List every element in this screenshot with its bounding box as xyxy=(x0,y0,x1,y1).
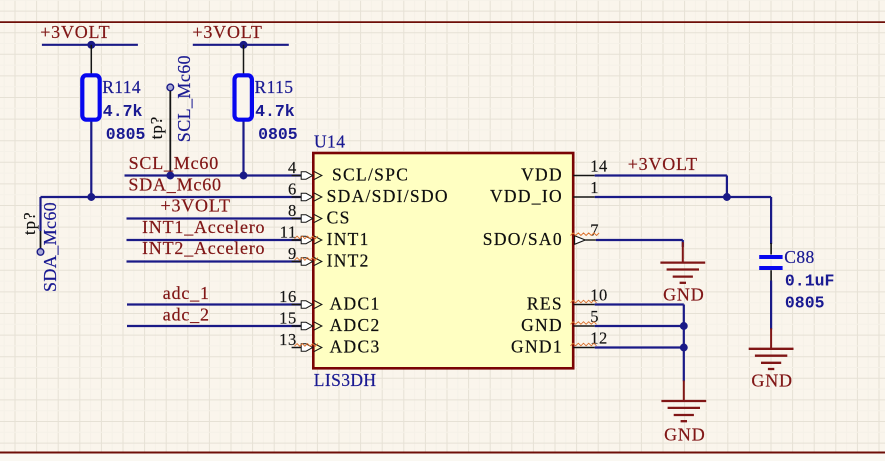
pin 8 (left) xyxy=(288,201,322,223)
pin name VDD xyxy=(521,165,563,185)
pin 16 (left) xyxy=(279,287,322,309)
svg-text:adc_2: adc_2 xyxy=(163,304,210,324)
wire net adc_2 xyxy=(127,325,301,327)
svg-text:U14: U14 xyxy=(314,131,345,151)
svg-text:adc_1: adc_1 xyxy=(163,283,210,303)
wire R114 to SDA_Mc60 net xyxy=(90,120,92,198)
svg-text:C88: C88 xyxy=(784,247,814,267)
svg-text:4: 4 xyxy=(288,158,297,177)
wire R115 to SCL_Mc60 net xyxy=(242,120,244,176)
pin 11 (left) xyxy=(280,223,322,245)
pin 5 (right) xyxy=(571,307,600,326)
svg-text:0805: 0805 xyxy=(106,125,146,144)
pin 14 (VDD) xyxy=(573,156,608,175)
svg-text:4.7k: 4.7k xyxy=(103,102,143,121)
net label INT2_Accelero xyxy=(142,238,265,258)
test point tp? (SDA_Mc60) xyxy=(20,202,60,292)
junction GND net xyxy=(680,322,688,330)
pin 10 (right) xyxy=(571,285,608,304)
junction on +3VOLT bar (middle) xyxy=(240,41,248,49)
junction SCL_Mc60 / R115 xyxy=(240,172,248,180)
sheet border top xyxy=(0,21,885,23)
svg-text:SCL/SPC: SCL/SPC xyxy=(332,165,409,185)
pin name GND xyxy=(521,315,563,335)
svg-text:GND: GND xyxy=(664,425,705,445)
svg-text:0.1uF: 0.1uF xyxy=(785,272,835,291)
resistor R115 xyxy=(235,75,294,119)
junction SDA_Mc60 / R114 xyxy=(87,193,95,201)
svg-text:SDA_Mc60: SDA_Mc60 xyxy=(40,202,60,292)
net label adc_1 xyxy=(163,283,210,303)
junction GND net 2 xyxy=(680,344,688,352)
svg-text:13: 13 xyxy=(279,330,297,349)
net label +3VOLT (right) xyxy=(628,154,698,174)
svg-text:ADC1: ADC1 xyxy=(330,294,381,314)
wire net SDA_Mc60 xyxy=(41,197,302,231)
value 4.7k (R114) xyxy=(103,102,143,121)
svg-text:GND: GND xyxy=(751,371,792,391)
pin name ADC3 xyxy=(330,337,381,357)
svg-text:INT1_Accelero: INT1_Accelero xyxy=(142,217,265,237)
svg-text:+3VOLT: +3VOLT xyxy=(628,154,698,174)
ground GND (pin 7) xyxy=(660,242,705,304)
value 0805 (R115) xyxy=(258,125,298,144)
wire VDD to +3VOLT xyxy=(595,176,727,198)
wire net INT1_Accelero xyxy=(127,239,302,241)
svg-text:VDD: VDD xyxy=(521,165,563,185)
value 0805 (R114) xyxy=(106,125,146,144)
svg-text:+3VOLT: +3VOLT xyxy=(40,22,110,42)
svg-text:SCL_Mc60: SCL_Mc60 xyxy=(129,153,219,173)
svg-text:RES: RES xyxy=(527,294,563,314)
wire SDO/SA0 to GND xyxy=(596,240,683,247)
net label +3VOLT xyxy=(161,196,231,216)
svg-text:15: 15 xyxy=(279,309,297,328)
svg-text:4.7k: 4.7k xyxy=(255,102,295,121)
pin 15 (left) xyxy=(279,309,322,331)
svg-text:GND: GND xyxy=(663,284,704,304)
svg-text:R114: R114 xyxy=(102,77,141,97)
svg-text:8: 8 xyxy=(288,201,297,220)
svg-text:INT2_Accelero: INT2_Accelero xyxy=(142,238,265,258)
pin name GND1 xyxy=(511,337,563,357)
svg-text:0805: 0805 xyxy=(258,125,298,144)
svg-text:tp?: tp? xyxy=(147,116,166,140)
wire net SCL_Mc60 xyxy=(125,174,302,176)
wire RES/GND/GND1 to ground xyxy=(595,305,684,382)
pin 12 (right) xyxy=(571,328,608,347)
pin name CS xyxy=(327,208,351,228)
svg-text:INT2: INT2 xyxy=(327,251,370,271)
svg-text:tp?: tp? xyxy=(20,211,39,235)
pin name VDD_IO xyxy=(490,186,563,206)
ground GND (pins 5/12) xyxy=(661,381,706,445)
svg-text:6: 6 xyxy=(288,180,297,199)
pin 4 (left) xyxy=(288,158,322,180)
wire C88 to GND xyxy=(770,281,772,330)
svg-text:GND1: GND1 xyxy=(511,337,563,357)
capacitor C88 xyxy=(759,243,814,281)
svg-text:ADC3: ADC3 xyxy=(330,337,381,357)
pin 9 (left) xyxy=(288,244,322,266)
svg-text:11: 11 xyxy=(280,223,297,242)
svg-text:14: 14 xyxy=(590,156,608,175)
svg-text:LIS3DH: LIS3DH xyxy=(314,370,377,390)
pin name INT2 xyxy=(327,251,370,271)
svg-text:SCL_Mc60: SCL_Mc60 xyxy=(174,55,194,142)
wire net adc_1 xyxy=(127,303,301,305)
svg-text:CS: CS xyxy=(327,208,351,228)
pin name SDA/SDI/SDO xyxy=(327,186,449,206)
pin name RES xyxy=(527,294,563,314)
test point tp? (SCL_Mc60) xyxy=(147,55,194,176)
value 0805 (C88) xyxy=(785,294,825,313)
junction on +3VOLT bar (left) xyxy=(87,41,95,49)
svg-text:SDA_Mc60: SDA_Mc60 xyxy=(128,175,221,195)
wire net +3VOLT to pin CS xyxy=(127,217,302,219)
svg-text:7: 7 xyxy=(590,220,599,239)
svg-text:+3VOLT: +3VOLT xyxy=(161,196,231,216)
wire +3VOLT bar to R114 xyxy=(90,45,92,76)
pin 7 (SDO/SA0) output arrow xyxy=(571,220,600,244)
pin 1 (VDD_IO) xyxy=(573,178,599,197)
svg-text:R115: R115 xyxy=(255,77,294,97)
wire +3VOLT bar to R115 xyxy=(243,45,245,76)
net label SCL_Mc60 xyxy=(129,153,219,173)
value 0.1uF (C88) xyxy=(785,272,835,291)
wire net INT2_Accelero xyxy=(127,260,302,262)
junction VDD/VDD_IO xyxy=(723,193,731,201)
resistor R114 xyxy=(82,75,141,119)
svg-text:1: 1 xyxy=(590,178,599,197)
net label adc_2 xyxy=(163,304,210,324)
svg-text:9: 9 xyxy=(288,244,297,263)
power port +3VOLT (left) xyxy=(40,22,138,45)
junction SCL_Mc60 / testpoint xyxy=(166,172,174,180)
pin name SCL/SPC xyxy=(332,165,409,185)
power port +3VOLT (middle) xyxy=(192,22,288,45)
svg-text:VDD_IO: VDD_IO xyxy=(490,186,563,206)
svg-text:SDA/SDI/SDO: SDA/SDI/SDO xyxy=(327,186,449,206)
pin name INT1 xyxy=(327,229,370,249)
svg-text:SDO/SA0: SDO/SA0 xyxy=(483,229,563,249)
svg-text:ADC2: ADC2 xyxy=(330,315,381,335)
sheet border bottom xyxy=(0,453,885,461)
value 4.7k (R115) xyxy=(255,102,295,121)
net label INT1_Accelero xyxy=(142,217,265,237)
svg-text:GND: GND xyxy=(521,315,563,335)
wire VDD_IO to C88 xyxy=(595,197,771,244)
svg-text:16: 16 xyxy=(279,287,297,306)
op-amp/IC U14 body xyxy=(313,131,573,389)
svg-text:0805: 0805 xyxy=(785,294,825,313)
pin 6 (left) xyxy=(288,180,322,202)
ground GND (C88) xyxy=(749,328,794,390)
pin 13 (left) xyxy=(279,330,322,352)
pin name ADC2 xyxy=(330,315,381,335)
net label SDA_Mc60 xyxy=(128,175,221,195)
svg-text:+3VOLT: +3VOLT xyxy=(192,22,262,42)
pin name SDO/SA0 xyxy=(483,229,563,249)
pin name ADC1 xyxy=(330,294,381,314)
svg-text:INT1: INT1 xyxy=(327,229,370,249)
